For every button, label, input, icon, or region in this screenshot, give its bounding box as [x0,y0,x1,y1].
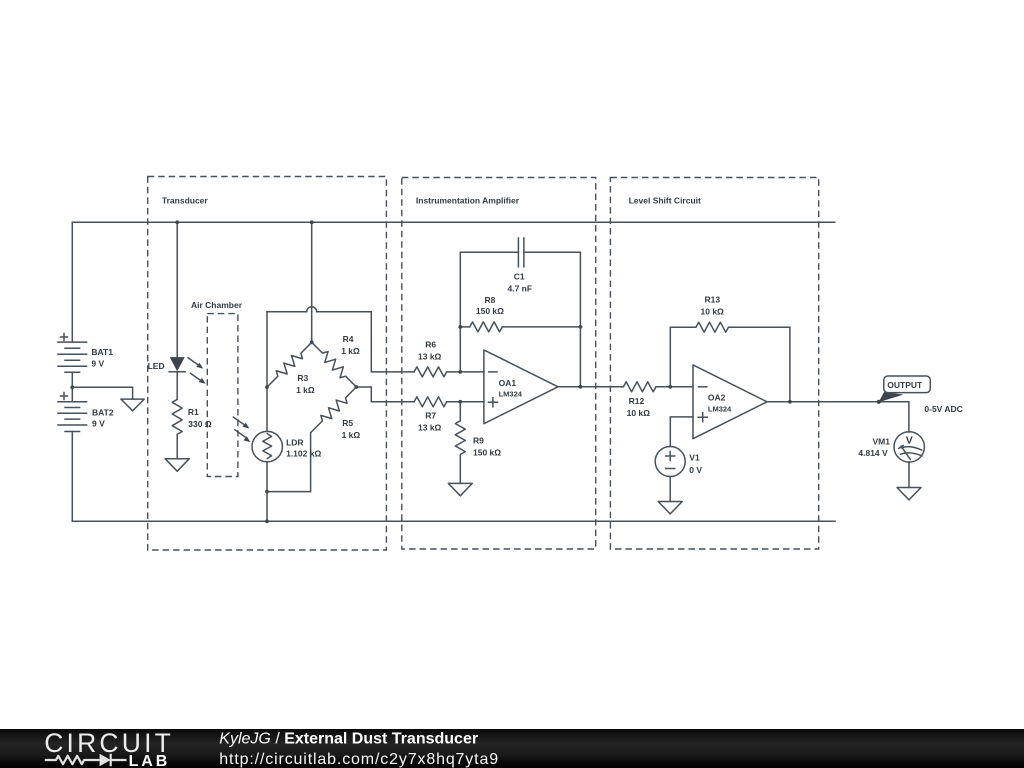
svg-text:http://circuitlab.com/c2y7x8hq: http://circuitlab.com/c2y7x8hq7yta9 [219,751,499,768]
node R8 left [458,325,462,329]
voltmeter VM1 [858,432,924,462]
svg-text:R3: R3 [297,373,308,383]
svg-text:Air Chamber: Air Chamber [191,300,243,310]
wire LED branch from top rail [176,222,178,357]
svg-text:BAT1: BAT1 [91,347,113,357]
resistor R9 [455,402,501,462]
svg-text:LED: LED [148,361,165,371]
svg-text:4.7 nF: 4.7 nF [508,284,533,294]
node bridge top rail [310,220,314,224]
wire V1 to ground [669,477,671,502]
voltage source V1 [655,447,702,477]
wire R5 down to bottom node [267,433,311,492]
svg-text:R6: R6 [425,340,436,350]
wire OA2 plus to V1 [670,417,693,447]
svg-text:Level Shift Circuit: Level Shift Circuit [629,196,701,206]
node OA2 minus junction [668,385,672,389]
node OA1 output [579,385,583,389]
node OA2 output [788,400,792,404]
battery BAT2 [58,393,114,432]
flag OUTPUT [879,376,931,402]
svg-text:V: V [906,434,913,446]
logo CircuitLab [44,728,174,768]
svg-text:10 kΩ: 10 kΩ [701,307,725,317]
footer bar [0,729,1024,768]
wire R12 to OA2 minus [656,386,693,388]
svg-text:1 kΩ: 1 kΩ [296,385,315,395]
svg-text:OUTPUT: OUTPUT [887,380,923,390]
svg-text:KyleJG / External Dust Transdu: KyleJG / External Dust Transducer [219,731,478,748]
svg-text:4.814 V: 4.814 V [858,448,888,458]
node bridge right [354,385,358,389]
svg-text:R1: R1 [188,407,199,417]
svg-text:330 Ω: 330 Ω [188,419,212,429]
svg-text:R8: R8 [485,295,496,305]
wire R1 to ground [176,434,178,458]
svg-text:9 V: 9 V [91,359,104,369]
op-amp OA2 [693,365,767,439]
resistor R12 [623,382,656,418]
wire R9 to ground [459,462,461,483]
svg-text:0-5V ADC: 0-5V ADC [924,404,962,414]
wire BAT1 to BAT2 [71,372,73,402]
svg-text:9 V: 9 V [92,418,105,428]
wire feedback left vertical [459,252,461,372]
capacitor C1 [460,238,580,294]
svg-text:LDR: LDR [286,438,303,448]
resistor R1 [172,399,212,434]
wire R6 to OA1 minus [447,371,484,373]
svg-text:R12: R12 [629,396,645,406]
resistor R6 [414,340,447,377]
resistor R7 [414,397,447,433]
resistor R3 [263,339,315,395]
node LED top rail [175,220,179,224]
wire BAT2 to bottom rail [71,432,73,522]
svg-text:0 V: 0 V [689,465,702,475]
svg-text:Transducer: Transducer [162,195,209,205]
svg-text:Instrumentation Amplifier: Instrumentation Amplifier [416,196,520,206]
dashed box Transducer [148,177,387,551]
wire hop left-node to R6 corner [267,307,371,312]
svg-text:150 kΩ: 150 kΩ [473,448,501,458]
svg-text:V1: V1 [689,453,700,463]
dashed box Instrumentation Amplifier [402,178,596,550]
node bridge left [265,385,269,389]
ground VM1 [897,488,921,500]
svg-text:C1: C1 [514,272,525,282]
svg-text:BAT2: BAT2 [92,407,114,417]
node R8 right [579,325,583,329]
wire left vertical to BAT1 [71,222,73,342]
node bridge bottom [265,490,269,494]
svg-text:1 kΩ: 1 kΩ [341,346,360,356]
svg-text:R4: R4 [343,334,354,344]
svg-text:OA2: OA2 [708,393,726,403]
node OA1 minus junction [458,370,462,374]
svg-text:13 kΩ: 13 kΩ [418,423,442,433]
svg-text:LM324: LM324 [499,390,523,399]
svg-text:13 kΩ: 13 kΩ [418,352,442,362]
wire OA2 output to VM1 [767,402,909,432]
resistor R13 [670,295,790,402]
dashed box Air Chamber [191,300,243,476]
wire feedback right vertical [579,252,581,386]
svg-text:R13: R13 [705,295,721,305]
svg-text:LM324: LM324 [708,405,732,414]
wire bottom rail [72,520,835,522]
battery BAT1 [58,334,113,373]
svg-text:150 kΩ: 150 kΩ [476,306,504,316]
dashed box Level Shift Circuit [610,178,818,550]
wire bridge branch from top rail [311,222,313,342]
ground R1 [165,459,189,471]
wire right node to R7 [356,387,414,402]
svg-text:10 kΩ: 10 kΩ [627,408,651,418]
wire midpoint to ground [72,387,132,399]
resistor R8 [460,295,580,332]
wire VM1 to ground [908,462,910,487]
node battery midpoint [70,385,74,389]
svg-text:1.102 kΩ: 1.102 kΩ [286,449,321,459]
wire bridge to R6 [371,312,414,372]
node OUTPUT anchor [877,400,881,404]
svg-text:R7: R7 [425,411,436,421]
ground V1 [658,502,682,514]
svg-text:VM1: VM1 [873,436,891,446]
op-amp OA1 [484,350,558,424]
svg-text:OA1: OA1 [499,378,517,388]
resistor R5 [307,383,360,439]
photoresistor LDR [233,417,321,492]
wire R7 to OA1 plus [447,401,484,403]
node bridge top [310,340,314,344]
ground R9 [448,483,472,495]
LED D1 [148,357,206,384]
resistor R4 [308,334,360,390]
svg-text:1 kΩ: 1 kΩ [342,430,361,440]
wire LED to R1 [176,372,178,400]
svg-text:R5: R5 [342,418,353,428]
wire left node vertical [266,312,268,432]
node OA1 plus junction [458,400,462,404]
node bottom rail [265,519,269,523]
wire bridge bottom to rail [266,492,268,522]
svg-text:R9: R9 [473,436,484,446]
wire top rail [72,221,835,223]
ground battery midpoint [121,399,144,411]
wire OA1 output to R12 [558,386,623,388]
svg-text:LAB: LAB [129,753,171,768]
